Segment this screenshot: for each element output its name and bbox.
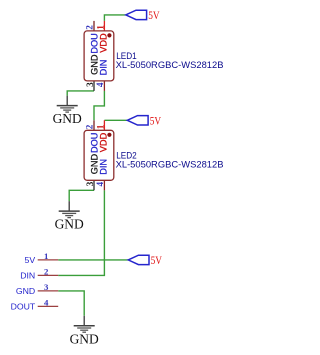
svg-text:2: 2 (44, 266, 49, 276)
svg-text:5V: 5V (150, 116, 162, 128)
svg-text:DIN: DIN (20, 271, 35, 281)
svg-text:GND: GND (70, 331, 99, 346)
svg-text:5V: 5V (151, 255, 163, 267)
svg-text:3: 3 (44, 282, 49, 292)
svg-text:1: 1 (95, 124, 105, 129)
svg-text:GND: GND (16, 286, 35, 296)
svg-text:5V: 5V (25, 255, 36, 265)
svg-text:2: 2 (85, 124, 95, 129)
svg-text:GND: GND (53, 111, 82, 126)
svg-text:VDD: VDD (98, 33, 108, 53)
svg-text:DIN: DIN (98, 60, 108, 76)
svg-text:2: 2 (85, 25, 95, 30)
svg-text:1: 1 (44, 251, 48, 261)
svg-text:4: 4 (95, 182, 105, 187)
svg-text:VDD: VDD (98, 132, 108, 152)
svg-text:DIN: DIN (98, 159, 108, 175)
svg-text:DOUT: DOUT (11, 302, 36, 312)
svg-text:4: 4 (95, 82, 105, 87)
svg-text:5V: 5V (148, 10, 160, 22)
svg-text:4: 4 (44, 297, 49, 307)
svg-text:GND: GND (55, 217, 84, 232)
svg-text:3: 3 (85, 181, 95, 186)
svg-text:1: 1 (95, 25, 105, 30)
svg-text:XL-5050RGBC-WS2812B: XL-5050RGBC-WS2812B (116, 60, 224, 70)
svg-text:XL-5050RGBC-WS2812B: XL-5050RGBC-WS2812B (116, 159, 224, 169)
svg-text:3: 3 (85, 82, 95, 87)
